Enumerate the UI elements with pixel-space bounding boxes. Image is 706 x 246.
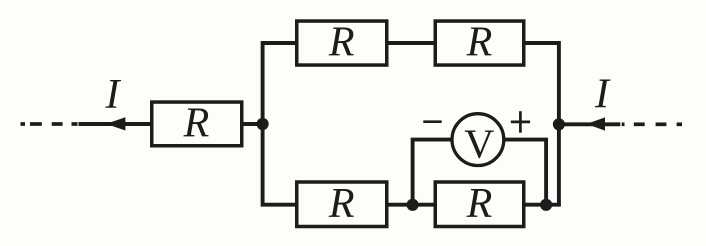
resistor R3 (top branch, second)	[435, 20, 524, 66]
wire: bottom-right segment	[524, 203, 561, 207]
node A (left junction)	[257, 118, 269, 130]
wire: left dashed lead	[21, 122, 78, 126]
current arrow (left, pointing left)	[106, 117, 125, 130]
wire: between top resistors	[389, 41, 434, 45]
wire: right lead solid segment	[559, 122, 620, 126]
wire: top-right corner down to bottom wire	[526, 43, 559, 207]
wire: between bottom resistors	[389, 203, 434, 207]
current arrow (right, pointing left)	[586, 117, 605, 130]
resistor R5 (bottom branch, right / measured)	[435, 181, 524, 227]
wire: voltmeter right lead	[503, 140, 546, 205]
svg-text:R: R	[328, 181, 355, 227]
wire: left lead solid segment	[79, 122, 152, 126]
svg-text:R: R	[466, 20, 493, 66]
node B (right junction)	[553, 118, 565, 130]
svg-text:I: I	[105, 72, 122, 118]
resistor R2 (top branch, first)	[297, 20, 387, 66]
svg-text:R: R	[466, 181, 493, 227]
polarity plus sign	[511, 111, 530, 133]
wire: R1 to node A	[244, 122, 263, 126]
polarity minus sign	[423, 120, 441, 123]
node C (bottom junction, voltmeter left)	[407, 199, 419, 211]
resistor R4 (bottom branch, left)	[297, 181, 387, 227]
svg-text:R: R	[328, 20, 355, 66]
svg-text:I: I	[594, 72, 611, 118]
wire: right dashed lead	[622, 122, 682, 126]
svg-text:V: V	[464, 121, 494, 167]
wire: voltmeter left lead	[413, 140, 453, 205]
wire: left branch riser (top corner to bottom corner)	[263, 43, 297, 205]
voltmeter U1 (circle body)	[452, 114, 504, 166]
resistor R1 (left series resistor)	[152, 101, 242, 147]
svg-text:R: R	[183, 101, 210, 147]
node D (bottom junction, voltmeter right)	[540, 199, 552, 211]
